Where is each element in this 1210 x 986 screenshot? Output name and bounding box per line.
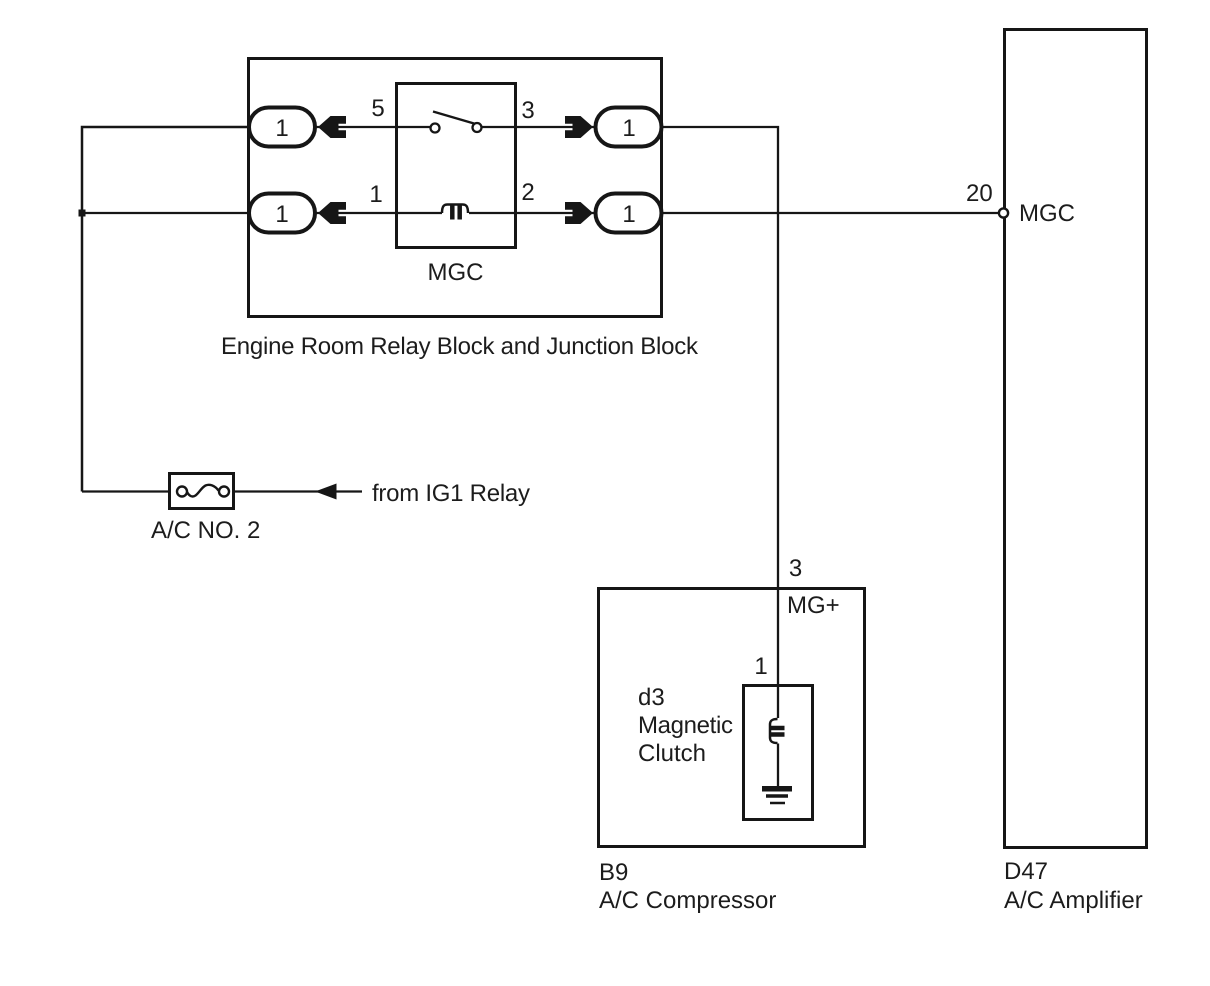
wire bottom row left (82, 212, 250, 214)
svg-text:MGC: MGC (428, 259, 484, 286)
svg-text:5: 5 (371, 95, 384, 122)
magnetic clutch inner box (744, 686, 813, 820)
compressor B9 box (599, 589, 865, 847)
arrowhead right bottom row (565, 202, 593, 224)
fuse element (177, 485, 229, 497)
connector oval 1 bottom left (249, 194, 315, 233)
wire bottom row oval to relay (315, 212, 397, 214)
connector oval 1 top left (249, 108, 315, 147)
connector oval 1 top right (596, 108, 662, 147)
relay MGC box (397, 84, 516, 248)
relay switch contact (431, 112, 482, 133)
svg-text:Engine Room Relay Block and Ju: Engine Room Relay Block and Junction Blo… (221, 333, 699, 360)
wire top right to corner and down to clutch coil (662, 127, 778, 718)
ground (762, 789, 792, 803)
svg-text:3: 3 (789, 555, 802, 582)
wire bottom row relay to right oval (514, 212, 598, 214)
svg-text:1: 1 (622, 115, 635, 142)
fuse wire row (82, 490, 170, 492)
wire coil to ground (777, 744, 779, 788)
svg-text:A/C Amplifier: A/C Amplifier (1004, 887, 1143, 914)
wire bottom row to amplifier pin 20 (662, 212, 999, 214)
svg-text:A/C NO. 2: A/C NO. 2 (151, 517, 260, 544)
wire top row oval to relay (315, 126, 397, 128)
svg-text:1: 1 (275, 115, 288, 142)
svg-text:MG+: MG+ (787, 592, 840, 619)
svg-text:Magnetic: Magnetic (638, 712, 733, 739)
junction dot (79, 210, 86, 217)
arrowhead right top row (565, 116, 593, 138)
wire top row relay to right oval (514, 126, 598, 128)
svg-text:from IG1 Relay: from IG1 Relay (372, 480, 530, 507)
svg-text:A/C Compressor: A/C Compressor (599, 887, 776, 914)
clutch coil (770, 719, 785, 743)
fuse A/C NO. 2 box (170, 474, 234, 509)
wire relay interior bottom row (397, 212, 442, 214)
arrowhead left bottom row (318, 202, 346, 224)
svg-text:2: 2 (521, 179, 534, 206)
svg-text:D47: D47 (1004, 858, 1048, 885)
pin 20 circle (999, 208, 1008, 217)
connector oval 1 bottom right (596, 194, 662, 233)
svg-text:1: 1 (622, 201, 635, 228)
svg-text:1: 1 (369, 181, 382, 208)
A/C amplifier D47 box (1005, 30, 1147, 848)
wire left vertical with top corner (82, 127, 250, 492)
svg-text:1: 1 (275, 201, 288, 228)
svg-text:MGC: MGC (1019, 200, 1075, 227)
svg-text:d3: d3 (638, 684, 665, 711)
relay coil (442, 205, 468, 220)
arrowhead left top row (318, 116, 346, 138)
arrowhead from IG1 Relay (315, 484, 337, 500)
svg-text:20: 20 (966, 180, 993, 207)
svg-text:B9: B9 (599, 859, 628, 886)
svg-text:Clutch: Clutch (638, 740, 706, 767)
svg-text:1: 1 (754, 653, 767, 680)
wire relay interior top row (397, 126, 430, 128)
svg-text:3: 3 (521, 97, 534, 124)
junction block box (249, 59, 662, 317)
